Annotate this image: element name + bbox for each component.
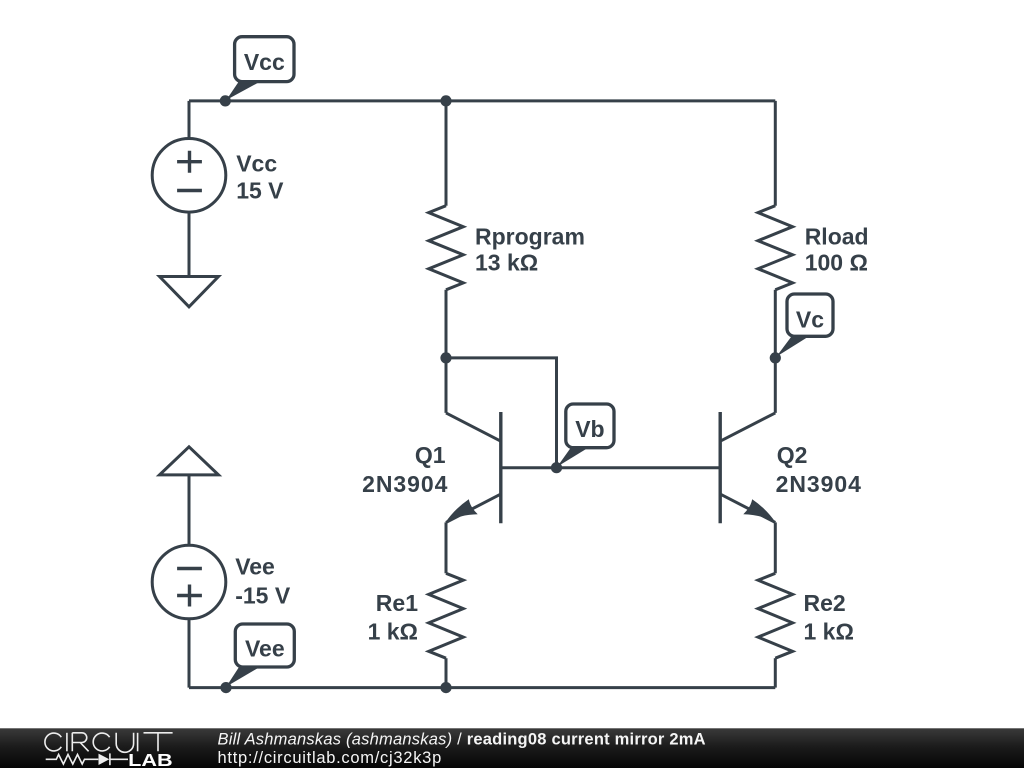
svg-text:Vb: Vb <box>575 416 604 442</box>
svg-text:LAB: LAB <box>128 750 173 768</box>
svg-text:Rprogram: Rprogram <box>475 223 585 249</box>
svg-text:Vcc: Vcc <box>244 49 285 75</box>
svg-text:Vee: Vee <box>245 636 285 662</box>
svg-text:Vcc: Vcc <box>236 150 277 176</box>
svg-text:Q1: Q1 <box>415 442 446 468</box>
svg-text:Bill Ashmanskas (ashmanskas) /: Bill Ashmanskas (ashmanskas) / reading08… <box>218 731 706 749</box>
svg-text:Vc: Vc <box>796 306 824 332</box>
svg-text:-15 V: -15 V <box>235 582 291 608</box>
svg-text:2N3904: 2N3904 <box>362 471 448 497</box>
svg-text:15 V: 15 V <box>236 178 284 204</box>
svg-text:1 kΩ: 1 kΩ <box>368 618 418 644</box>
svg-text:2N3904: 2N3904 <box>776 471 862 497</box>
svg-text:100 Ω: 100 Ω <box>805 250 868 276</box>
svg-text:1 kΩ: 1 kΩ <box>804 618 854 644</box>
svg-text:http://circuitlab.com/cj32k3p: http://circuitlab.com/cj32k3p <box>218 749 442 767</box>
svg-text:Rload: Rload <box>805 223 869 249</box>
svg-text:13 kΩ: 13 kΩ <box>475 250 538 276</box>
svg-text:Q2: Q2 <box>777 442 808 468</box>
svg-text:Vee: Vee <box>235 554 275 580</box>
svg-text:Re1: Re1 <box>376 590 418 616</box>
svg-text:Re2: Re2 <box>804 590 846 616</box>
